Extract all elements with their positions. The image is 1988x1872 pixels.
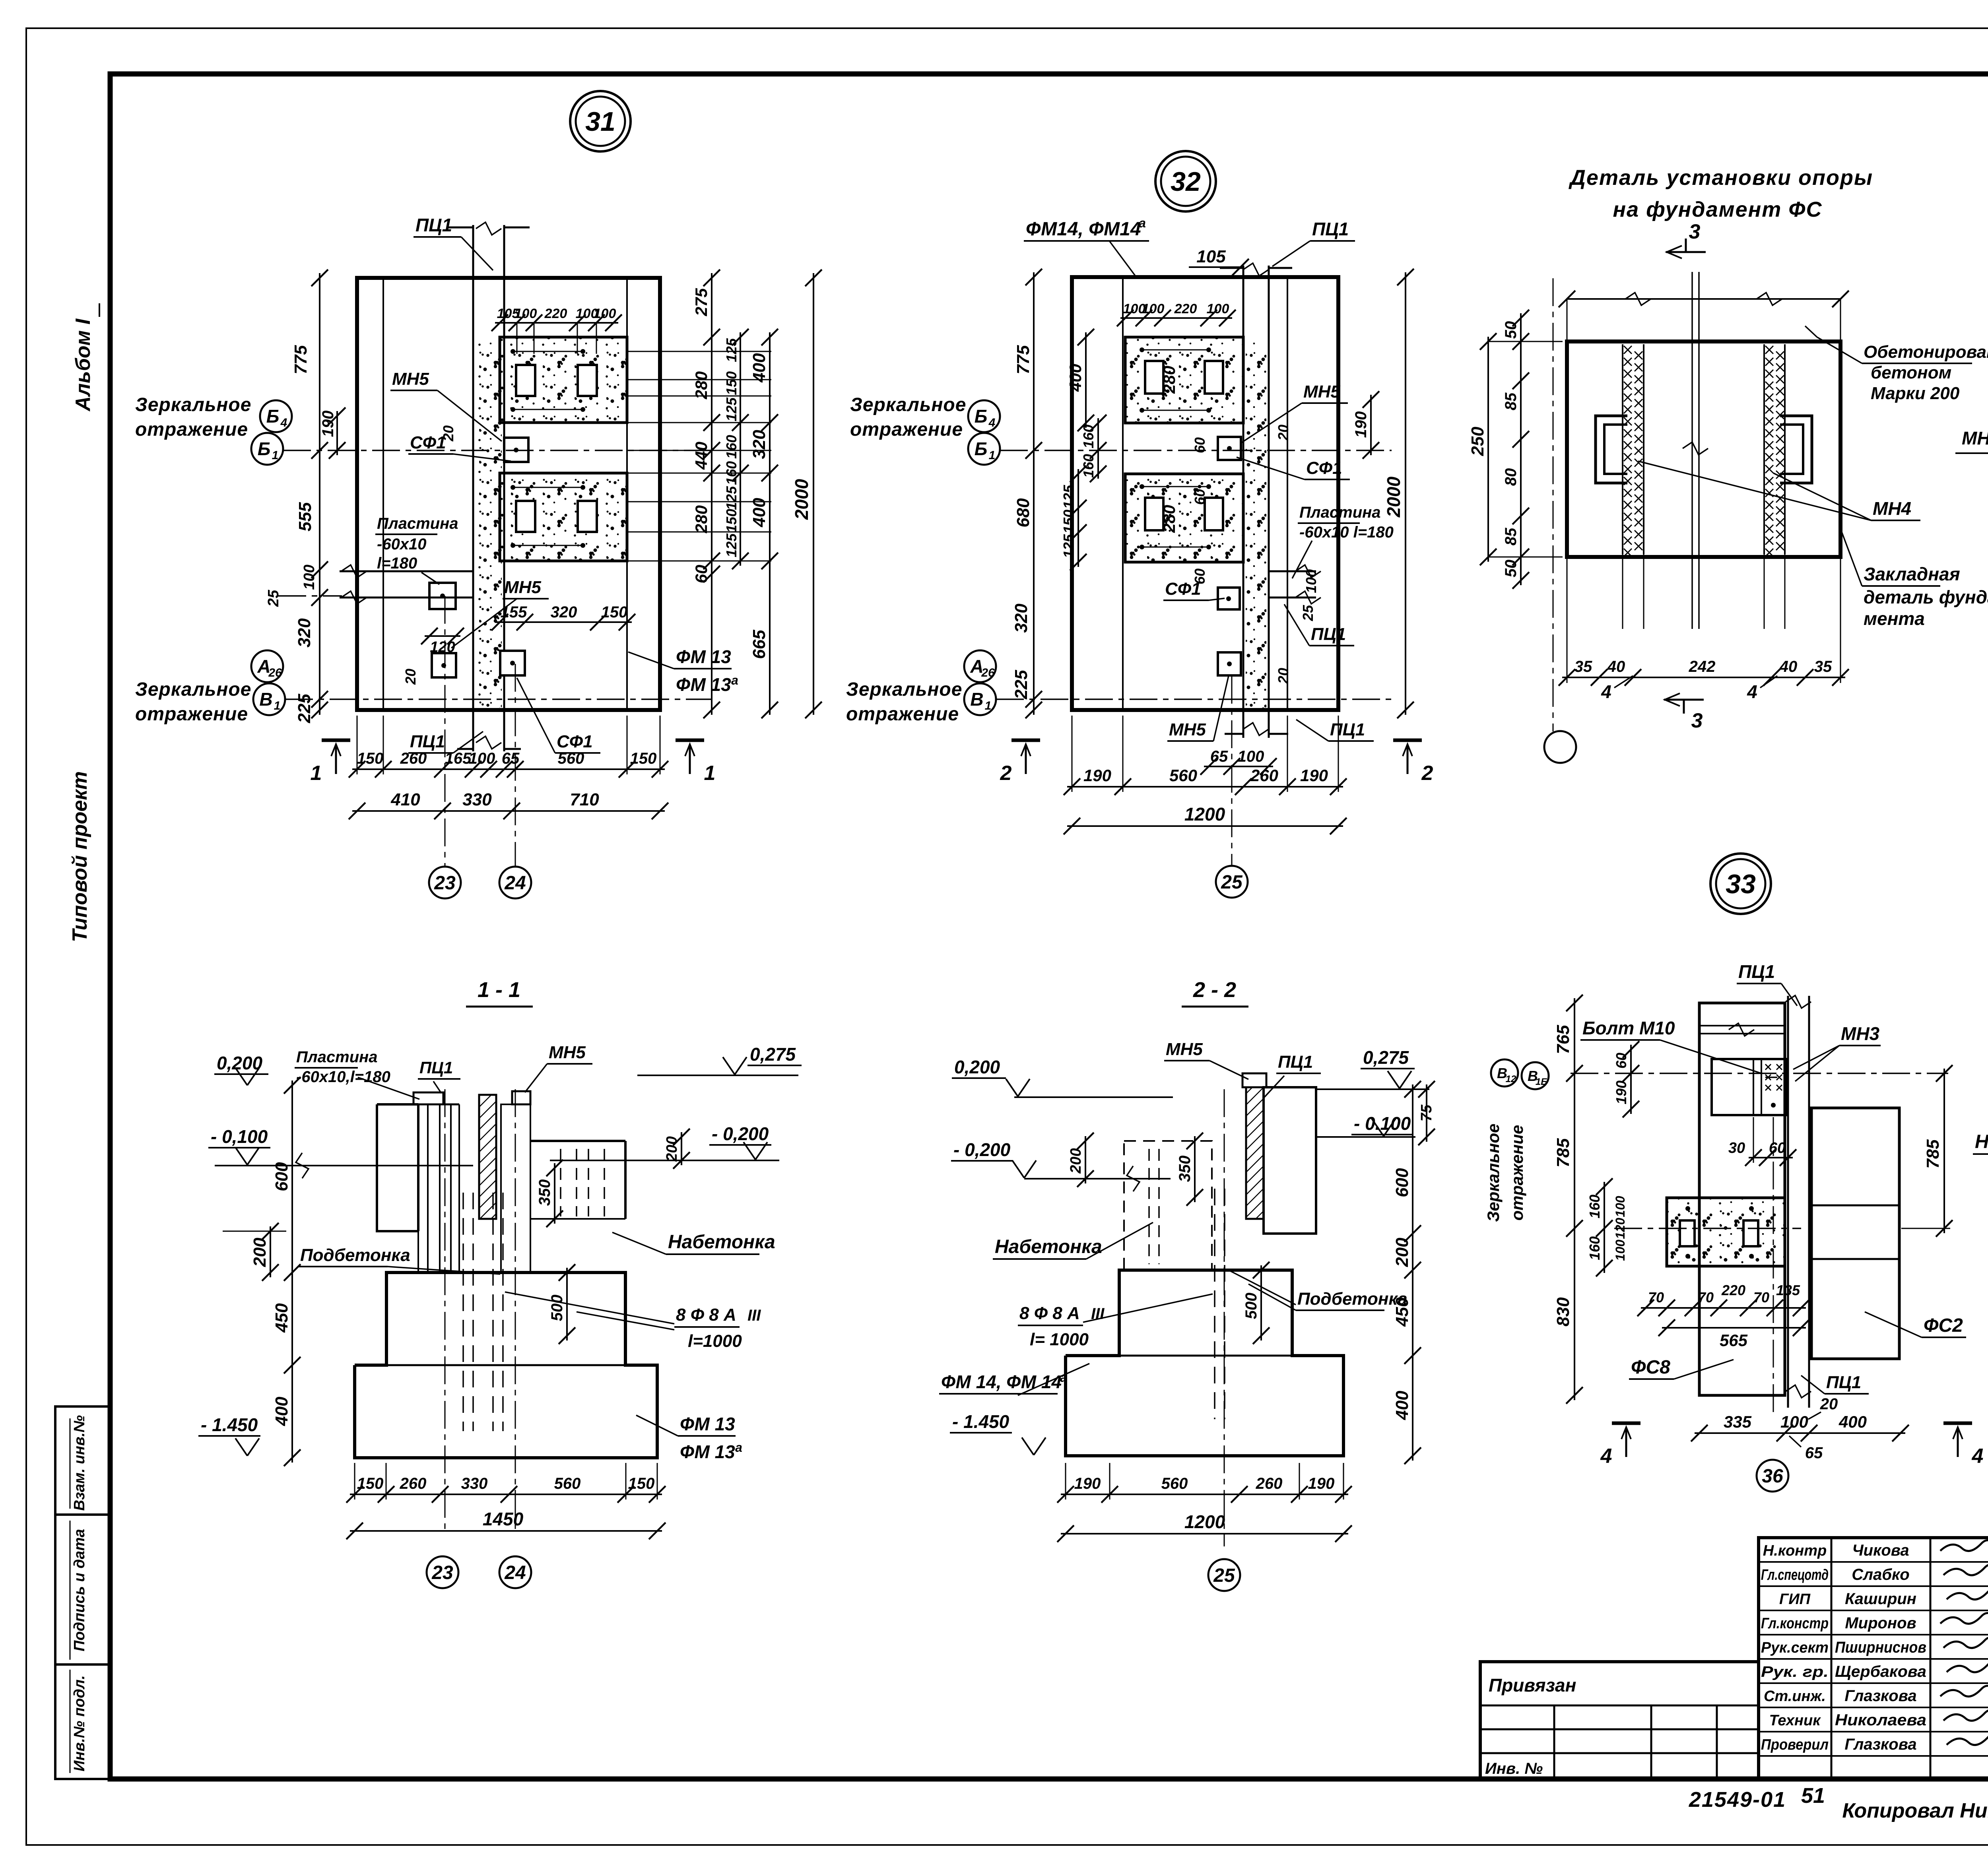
svg-text:155: 155 bbox=[501, 603, 527, 621]
svg-text:а: а bbox=[1139, 216, 1146, 230]
svg-text:Пластина: Пластина bbox=[1299, 504, 1381, 521]
svg-text:1: 1 bbox=[272, 449, 279, 462]
svg-text:l=180: l=180 bbox=[377, 555, 417, 572]
svg-text:35: 35 bbox=[1574, 658, 1592, 675]
svg-text:100: 100 bbox=[469, 750, 495, 767]
svg-text:60: 60 bbox=[1192, 489, 1208, 505]
svg-text:ПЦ1: ПЦ1 bbox=[1826, 1373, 1861, 1392]
svg-text:100: 100 bbox=[1780, 1412, 1808, 1431]
svg-text:100: 100 bbox=[1238, 748, 1264, 765]
svg-text:200: 200 bbox=[250, 1238, 270, 1267]
svg-text:Миронов: Миронов bbox=[1845, 1614, 1916, 1632]
svg-text:-60х10,l=180: -60х10,l=180 bbox=[296, 1068, 390, 1086]
svg-text:20: 20 bbox=[402, 669, 419, 685]
svg-text:160: 160 bbox=[1080, 454, 1097, 478]
svg-text:МН5: МН5 bbox=[504, 578, 541, 597]
svg-text:l=1000: l=1000 bbox=[688, 1331, 742, 1351]
svg-text:ПЦ1: ПЦ1 bbox=[1312, 219, 1349, 239]
svg-text:Глазкова: Глазкова bbox=[1844, 1687, 1916, 1705]
svg-text:50: 50 bbox=[1502, 321, 1520, 339]
svg-text:25: 25 bbox=[1221, 872, 1243, 893]
svg-text:20: 20 bbox=[1275, 425, 1291, 441]
svg-text:65: 65 bbox=[1805, 1444, 1823, 1462]
svg-text:2000: 2000 bbox=[791, 479, 812, 520]
svg-text:Болт М10: Болт М10 bbox=[1582, 1018, 1675, 1038]
svg-text:1: 1 bbox=[311, 762, 322, 785]
svg-text:12: 12 bbox=[1506, 1074, 1516, 1084]
svg-text:МН5: МН5 bbox=[1166, 1040, 1203, 1059]
svg-text:Н.контр: Н.контр bbox=[1763, 1542, 1827, 1559]
svg-text:190: 190 bbox=[1083, 766, 1111, 785]
svg-text:560: 560 bbox=[554, 1475, 581, 1492]
svg-text:Николаева: Николаева bbox=[1835, 1711, 1926, 1729]
svg-text:20: 20 bbox=[1820, 1395, 1838, 1413]
svg-text:125: 125 bbox=[723, 533, 740, 557]
svg-text:80: 80 bbox=[1502, 468, 1520, 486]
svg-text:565: 565 bbox=[1720, 1331, 1748, 1350]
svg-text:100: 100 bbox=[1303, 569, 1319, 593]
svg-text:ПЦ1: ПЦ1 bbox=[1738, 961, 1775, 982]
svg-text:33: 33 bbox=[1726, 869, 1756, 899]
svg-text:-60х10 l=180: -60х10 l=180 bbox=[1299, 524, 1394, 541]
svg-text:Глазкова: Глазкова bbox=[1844, 1736, 1916, 1753]
svg-text:330: 330 bbox=[462, 790, 492, 809]
svg-text:отражение: отражение bbox=[846, 704, 959, 725]
svg-text:Набетонка: Набетонка bbox=[668, 1232, 775, 1253]
svg-text:а: а bbox=[1060, 1370, 1067, 1385]
svg-text:65: 65 bbox=[1210, 748, 1228, 765]
svg-text:1200: 1200 bbox=[1184, 804, 1225, 824]
svg-text:190: 190 bbox=[1352, 411, 1370, 438]
svg-text:l= 1000: l= 1000 bbox=[1030, 1330, 1089, 1349]
svg-text:4: 4 bbox=[1747, 681, 1757, 702]
svg-text:32: 32 bbox=[1171, 167, 1201, 197]
svg-text:25: 25 bbox=[1213, 1565, 1235, 1586]
svg-text:отражение: отражение bbox=[1508, 1125, 1526, 1221]
svg-text:МН4: МН4 bbox=[1962, 428, 1988, 448]
svg-text:830: 830 bbox=[1553, 1297, 1573, 1327]
svg-text:2: 2 bbox=[1000, 762, 1012, 785]
svg-text:25: 25 bbox=[265, 590, 282, 607]
svg-text:ФС2: ФС2 bbox=[1924, 1315, 1963, 1336]
svg-text:ПЦ1: ПЦ1 bbox=[419, 1058, 453, 1077]
svg-text:Подбетонка: Подбетонка bbox=[300, 1245, 410, 1265]
svg-text:100: 100 bbox=[594, 306, 616, 321]
svg-text:1: 1 bbox=[989, 449, 996, 462]
svg-text:2000: 2000 bbox=[1383, 476, 1404, 518]
svg-text:МН5: МН5 bbox=[1169, 720, 1206, 739]
svg-text:3: 3 bbox=[1689, 220, 1701, 243]
svg-text:680: 680 bbox=[1013, 498, 1033, 528]
svg-text:400: 400 bbox=[749, 353, 769, 383]
svg-text:МН3: МН3 bbox=[1841, 1023, 1880, 1044]
svg-text:Зеркальное: Зеркальное bbox=[1484, 1123, 1503, 1222]
svg-text:85: 85 bbox=[1502, 528, 1520, 545]
svg-text:160: 160 bbox=[723, 435, 740, 459]
svg-text:125: 125 bbox=[723, 486, 740, 510]
svg-text:СФ1: СФ1 bbox=[1306, 458, 1342, 478]
svg-text:СФ1: СФ1 bbox=[557, 732, 593, 751]
svg-text:21549-01: 21549-01 bbox=[1689, 1788, 1786, 1812]
svg-text:Б: Б bbox=[258, 438, 271, 459]
svg-text:а: а bbox=[731, 673, 738, 687]
svg-text:400: 400 bbox=[749, 498, 769, 528]
svg-text:100: 100 bbox=[1613, 1196, 1627, 1217]
svg-text:ФМ 13: ФМ 13 bbox=[676, 674, 731, 695]
svg-text:2 - 2: 2 - 2 bbox=[1193, 978, 1236, 1002]
svg-text:ФС8: ФС8 bbox=[1631, 1357, 1670, 1378]
svg-text:70: 70 bbox=[1648, 1289, 1664, 1306]
svg-text:24: 24 bbox=[504, 873, 526, 894]
svg-text:23: 23 bbox=[434, 873, 456, 894]
svg-text:150: 150 bbox=[357, 1475, 384, 1492]
svg-text:242: 242 bbox=[1689, 658, 1716, 675]
svg-text:4: 4 bbox=[1972, 1445, 1984, 1468]
svg-text:Альбом I: Альбом I bbox=[72, 318, 95, 412]
svg-text:65: 65 bbox=[502, 750, 520, 767]
svg-text:1450: 1450 bbox=[483, 1509, 524, 1529]
svg-text:1: 1 bbox=[274, 699, 281, 712]
svg-text:деталь фунда-: деталь фунда- bbox=[1864, 587, 1988, 607]
svg-text:ФМ 13: ФМ 13 bbox=[680, 1441, 735, 1462]
svg-text:24: 24 bbox=[504, 1562, 526, 1583]
svg-text:410: 410 bbox=[390, 790, 420, 809]
svg-text:160: 160 bbox=[1080, 425, 1097, 448]
svg-text:4: 4 bbox=[1600, 1445, 1612, 1468]
svg-text:Зеркальное: Зеркальное bbox=[135, 679, 251, 700]
svg-text:- 0,200: - 0,200 bbox=[953, 1139, 1011, 1160]
svg-text:500: 500 bbox=[1242, 1293, 1260, 1319]
svg-text:775: 775 bbox=[291, 345, 311, 374]
svg-text:0,200: 0,200 bbox=[217, 1053, 263, 1073]
svg-text:320: 320 bbox=[295, 618, 314, 648]
svg-text:190: 190 bbox=[1308, 1475, 1335, 1492]
svg-text:120: 120 bbox=[1613, 1218, 1627, 1239]
svg-text:75: 75 bbox=[1418, 1104, 1435, 1121]
svg-text:710: 710 bbox=[570, 790, 599, 809]
svg-text:400: 400 bbox=[272, 1397, 291, 1426]
svg-text:450: 450 bbox=[272, 1303, 291, 1333]
svg-text:50: 50 bbox=[1502, 560, 1520, 578]
svg-text:3: 3 bbox=[1691, 709, 1703, 732]
svg-text:125: 125 bbox=[1060, 485, 1077, 509]
svg-text:320: 320 bbox=[551, 603, 577, 621]
svg-text:280: 280 bbox=[1160, 366, 1178, 394]
svg-text:190: 190 bbox=[319, 411, 337, 437]
svg-text:Взам. инв.№: Взам. инв.№ bbox=[71, 1415, 88, 1511]
svg-text:1200: 1200 bbox=[1184, 1511, 1225, 1532]
svg-text:на фундамент ФС: на фундамент ФС bbox=[1613, 198, 1823, 221]
svg-text:В: В bbox=[259, 689, 272, 710]
svg-text:- 0.100: - 0.100 bbox=[1354, 1113, 1411, 1134]
svg-text:В: В bbox=[970, 689, 983, 710]
svg-text:70: 70 bbox=[1698, 1289, 1714, 1306]
svg-text:275: 275 bbox=[692, 288, 711, 316]
svg-text:МН4: МН4 bbox=[1873, 498, 1911, 519]
svg-text:150: 150 bbox=[723, 371, 740, 395]
svg-text:100: 100 bbox=[514, 306, 537, 321]
svg-text:Подпись и дата: Подпись и дата bbox=[71, 1529, 88, 1651]
svg-text:бетоном: бетоном bbox=[1871, 363, 1951, 382]
svg-text:ПЦ1: ПЦ1 bbox=[415, 215, 452, 235]
svg-text:350: 350 bbox=[536, 1179, 553, 1206]
svg-text:Зеркальное: Зеркальное bbox=[850, 394, 966, 415]
svg-text:260: 260 bbox=[1256, 1475, 1283, 1492]
svg-text:785: 785 bbox=[1553, 1138, 1573, 1168]
svg-text:Марки 200: Марки 200 bbox=[1871, 384, 1960, 403]
svg-text:125: 125 bbox=[723, 397, 740, 421]
svg-text:40: 40 bbox=[1607, 658, 1625, 675]
svg-text:2: 2 bbox=[1421, 762, 1433, 785]
svg-text:220: 220 bbox=[1721, 1282, 1745, 1298]
svg-text:ПЦ1: ПЦ1 bbox=[410, 732, 445, 751]
svg-text:260: 260 bbox=[1250, 766, 1278, 785]
svg-text:280: 280 bbox=[692, 371, 711, 400]
svg-text:III: III bbox=[747, 1307, 761, 1324]
svg-text:555: 555 bbox=[295, 502, 315, 532]
svg-text:100: 100 bbox=[1142, 301, 1165, 316]
svg-text:30: 30 bbox=[1728, 1140, 1745, 1156]
svg-text:ГИП: ГИП bbox=[1779, 1591, 1811, 1608]
svg-text:ПЦ1: ПЦ1 bbox=[1330, 720, 1365, 739]
svg-text:ПЦ1: ПЦ1 bbox=[1311, 625, 1346, 644]
svg-text:0,275: 0,275 bbox=[750, 1044, 796, 1065]
svg-text:1: 1 bbox=[985, 699, 992, 712]
svg-text:100: 100 bbox=[301, 565, 318, 590]
svg-text:Инв. №: Инв. № bbox=[1485, 1760, 1543, 1777]
svg-text:765: 765 bbox=[1553, 1025, 1573, 1054]
svg-text:Инв.№ подл.: Инв.№ подл. bbox=[71, 1675, 88, 1771]
svg-text:Рук. гр.: Рук. гр. bbox=[1761, 1664, 1829, 1680]
svg-text:160: 160 bbox=[723, 461, 740, 485]
svg-text:31: 31 bbox=[585, 107, 615, 137]
svg-text:ФМ14, ФМ14: ФМ14, ФМ14 bbox=[1026, 219, 1141, 240]
svg-text:260: 260 bbox=[400, 1475, 427, 1492]
svg-text:Пластина: Пластина bbox=[296, 1048, 378, 1066]
svg-text:ФМ 13: ФМ 13 bbox=[680, 1414, 735, 1434]
svg-text:Щербакова: Щербакова bbox=[1835, 1663, 1926, 1680]
svg-text:0,275: 0,275 bbox=[1363, 1047, 1409, 1068]
svg-text:105: 105 bbox=[1196, 247, 1226, 266]
svg-text:85: 85 bbox=[1502, 392, 1520, 410]
svg-text:1 - 1: 1 - 1 bbox=[478, 978, 520, 1002]
svg-text:280: 280 bbox=[692, 505, 711, 533]
svg-text:100: 100 bbox=[1207, 301, 1229, 316]
svg-text:220: 220 bbox=[544, 306, 567, 321]
svg-text:60: 60 bbox=[1769, 1140, 1786, 1156]
svg-text:Типовой проект: Типовой проект bbox=[68, 771, 91, 942]
svg-text:Б: Б bbox=[975, 406, 988, 427]
svg-text:775: 775 bbox=[1013, 345, 1033, 374]
svg-text:Б: Б bbox=[975, 438, 988, 459]
svg-text:125: 125 bbox=[1060, 534, 1077, 558]
svg-text:отражение: отражение bbox=[850, 419, 963, 440]
svg-text:100: 100 bbox=[1613, 1240, 1627, 1261]
svg-text:4: 4 bbox=[1601, 681, 1611, 702]
svg-text:8 Ф 8 А: 8 Ф 8 А bbox=[676, 1305, 736, 1325]
svg-text:500: 500 bbox=[548, 1295, 566, 1321]
svg-text:МН5: МН5 bbox=[1303, 382, 1340, 402]
svg-text:МН5: МН5 bbox=[549, 1043, 586, 1062]
svg-text:160: 160 bbox=[1586, 1236, 1603, 1260]
svg-text:Техник: Техник bbox=[1769, 1712, 1821, 1729]
svg-text:190: 190 bbox=[1613, 1081, 1629, 1104]
svg-text:350: 350 bbox=[1176, 1156, 1194, 1182]
svg-text:отражение: отражение bbox=[135, 704, 248, 725]
svg-text:220: 220 bbox=[1174, 301, 1197, 316]
svg-text:- 0,200: - 0,200 bbox=[712, 1123, 769, 1144]
svg-text:60: 60 bbox=[1192, 437, 1208, 453]
svg-text:150: 150 bbox=[601, 603, 628, 621]
svg-text:40: 40 bbox=[1779, 658, 1798, 675]
svg-text:225: 225 bbox=[295, 694, 314, 724]
svg-text:ФМ 14, ФМ 14: ФМ 14, ФМ 14 bbox=[941, 1372, 1062, 1392]
svg-text:560: 560 bbox=[1161, 1475, 1188, 1492]
svg-text:665: 665 bbox=[749, 630, 769, 659]
svg-text:Гл.спецотд: Гл.спецотд bbox=[1761, 1567, 1829, 1583]
svg-text:МН5: МН5 bbox=[392, 369, 429, 389]
svg-text:Пширниснов: Пширниснов bbox=[1835, 1639, 1926, 1656]
svg-text:200: 200 bbox=[1068, 1148, 1084, 1174]
svg-text:150: 150 bbox=[357, 750, 384, 767]
svg-text:35: 35 bbox=[1814, 658, 1832, 675]
svg-text:1Б: 1Б bbox=[1536, 1077, 1547, 1087]
svg-text:190: 190 bbox=[1074, 1475, 1101, 1492]
svg-text:200: 200 bbox=[1392, 1238, 1412, 1267]
svg-text:4: 4 bbox=[988, 416, 996, 429]
svg-text:- 0,100: - 0,100 bbox=[211, 1126, 268, 1147]
svg-text:400: 400 bbox=[1839, 1412, 1867, 1431]
svg-text:- 1.450: - 1.450 bbox=[201, 1414, 258, 1435]
svg-text:335: 335 bbox=[1724, 1412, 1752, 1431]
svg-text:330: 330 bbox=[461, 1475, 488, 1492]
svg-text:400: 400 bbox=[1066, 364, 1085, 392]
svg-text:Подбетонка: Подбетонка bbox=[1297, 1289, 1408, 1309]
svg-text:Обетонировать: Обетонировать bbox=[1864, 342, 1988, 362]
svg-text:60: 60 bbox=[692, 565, 711, 584]
svg-text:мента: мента bbox=[1864, 608, 1925, 629]
svg-text:190: 190 bbox=[1300, 766, 1328, 785]
svg-text:320: 320 bbox=[1011, 603, 1031, 633]
svg-text:а: а bbox=[735, 1440, 742, 1455]
svg-text:150: 150 bbox=[630, 750, 657, 767]
svg-text:150: 150 bbox=[628, 1475, 655, 1492]
svg-text:Деталь установки опоры: Деталь установки опоры bbox=[1569, 166, 1873, 190]
svg-text:Привязан: Привязан bbox=[1489, 1675, 1576, 1695]
svg-text:51: 51 bbox=[1801, 1784, 1825, 1808]
svg-text:СФ1: СФ1 bbox=[410, 433, 446, 452]
svg-text:70: 70 bbox=[1753, 1289, 1769, 1306]
svg-text:Чикова: Чикова bbox=[1852, 1542, 1909, 1559]
svg-text:Проверил: Проверил bbox=[1761, 1736, 1829, 1753]
svg-text:Слабко: Слабко bbox=[1852, 1566, 1910, 1583]
svg-text:Гл.констр: Гл.констр bbox=[1761, 1615, 1829, 1632]
svg-text:- 1.450: - 1.450 bbox=[952, 1411, 1010, 1432]
svg-text:125: 125 bbox=[723, 338, 740, 362]
svg-text:4: 4 bbox=[280, 416, 287, 429]
svg-text:26: 26 bbox=[981, 666, 995, 679]
svg-text:600: 600 bbox=[1392, 1168, 1412, 1197]
svg-text:560: 560 bbox=[1169, 766, 1197, 785]
svg-text:Каширин: Каширин bbox=[1845, 1590, 1916, 1608]
svg-text:150: 150 bbox=[723, 509, 740, 533]
svg-text:23: 23 bbox=[431, 1562, 453, 1583]
svg-text:Закладная: Закладная bbox=[1864, 564, 1960, 584]
svg-text:60: 60 bbox=[1613, 1053, 1629, 1069]
svg-text:Набетонка: Набетонка bbox=[1975, 1131, 1988, 1152]
svg-text:160: 160 bbox=[1586, 1195, 1603, 1218]
svg-text:Зеркальное: Зеркальное bbox=[846, 679, 962, 700]
svg-text:20: 20 bbox=[1275, 668, 1291, 684]
svg-text:1: 1 bbox=[704, 762, 716, 785]
svg-text:36: 36 bbox=[1762, 1466, 1783, 1487]
svg-text:СФ1: СФ1 bbox=[1165, 579, 1201, 599]
svg-text:8 Ф 8 А: 8 Ф 8 А bbox=[1019, 1304, 1080, 1323]
svg-text:280: 280 bbox=[1160, 505, 1178, 533]
svg-text:0,200: 0,200 bbox=[954, 1057, 1000, 1077]
svg-text:отражение: отражение bbox=[135, 419, 248, 440]
svg-text:Пластина: Пластина bbox=[377, 515, 458, 532]
svg-text:250: 250 bbox=[1468, 427, 1487, 456]
svg-text:Копировал Николаева: Копировал Николаева bbox=[1842, 1799, 1988, 1822]
svg-text:26: 26 bbox=[268, 666, 282, 679]
svg-text:225: 225 bbox=[1011, 670, 1031, 700]
svg-text:Б: Б bbox=[266, 406, 280, 427]
svg-text:320: 320 bbox=[749, 430, 769, 459]
svg-text:Ст.инж.: Ст.инж. bbox=[1764, 1688, 1826, 1705]
svg-text:Зеркальное: Зеркальное bbox=[135, 394, 251, 415]
svg-text:Набетонка: Набетонка bbox=[995, 1236, 1102, 1257]
svg-text:600: 600 bbox=[272, 1162, 291, 1191]
svg-text:Рук.сект: Рук.сект bbox=[1761, 1639, 1829, 1656]
svg-text:440: 440 bbox=[692, 442, 711, 470]
svg-text:ФМ 13: ФМ 13 bbox=[676, 646, 731, 667]
svg-text:400: 400 bbox=[1392, 1391, 1412, 1420]
svg-text:200: 200 bbox=[664, 1136, 680, 1162]
svg-text:785: 785 bbox=[1923, 1139, 1943, 1169]
svg-text:150: 150 bbox=[1060, 510, 1077, 533]
svg-text:25: 25 bbox=[1300, 605, 1316, 621]
svg-text:135: 135 bbox=[1776, 1282, 1800, 1298]
svg-text:ПЦ1: ПЦ1 bbox=[1278, 1052, 1313, 1072]
svg-text:-60х10: -60х10 bbox=[377, 535, 427, 553]
